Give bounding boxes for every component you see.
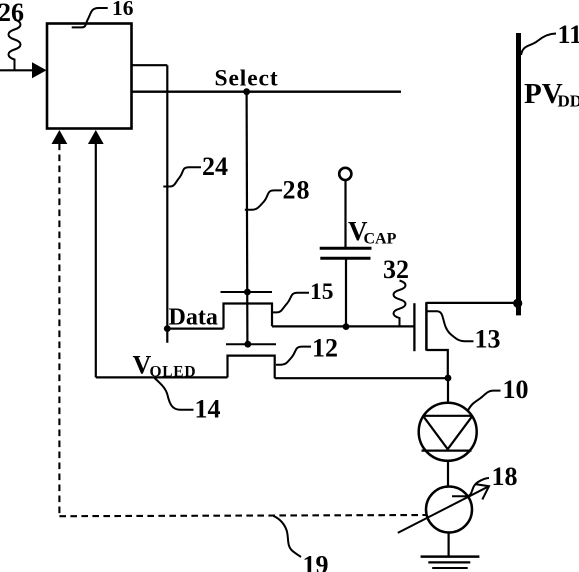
squiggle leader 32 xyxy=(394,281,406,327)
junction dot 28/gate12 xyxy=(244,341,251,348)
leader to 15 xyxy=(272,293,309,313)
dashed feedback wire vertical 19 xyxy=(58,144,60,517)
leader to 14 xyxy=(154,377,194,409)
leader to 24 xyxy=(163,167,201,186)
ground symbol xyxy=(421,557,480,568)
transistor Q13 gate bar xyxy=(413,303,415,351)
Data node dot xyxy=(164,325,171,332)
photosensor 18 circle xyxy=(426,487,472,533)
svg-text:11: 11 xyxy=(558,20,579,49)
open arrowhead of 18 xyxy=(476,484,489,499)
dashed feedback wire horizontal 19 xyxy=(59,515,425,516)
V_OLED wire left corner xyxy=(96,376,228,378)
input wire 26 xyxy=(0,69,33,71)
OLED D10 top lead xyxy=(447,378,449,403)
svg-text:19: 19 xyxy=(303,551,329,572)
leader to 13 xyxy=(426,311,473,341)
junction dot cap/gate wire xyxy=(343,323,350,330)
svg-text:14: 14 xyxy=(195,395,221,424)
capacitor top lead xyxy=(344,181,346,248)
transistor Q13 channel bar xyxy=(425,302,428,350)
transistor Q12 channel hump xyxy=(228,356,275,379)
transistor Q13 drain lead xyxy=(426,302,517,304)
arrowhead dashed into box xyxy=(52,130,68,144)
transistor Q15 channel hump xyxy=(224,304,273,329)
power bus PVDD 11 xyxy=(516,33,521,315)
gate wire 15 to 13 xyxy=(272,325,414,327)
transistor Q15 gate plate xyxy=(221,291,273,293)
svg-text:15: 15 xyxy=(310,279,334,305)
OLED D10 top chord xyxy=(423,415,473,417)
capacitor C 32 bottom plate xyxy=(320,257,370,260)
svg-text:OLED: OLED xyxy=(150,364,197,381)
junction dot source/OLED xyxy=(445,375,452,382)
V_OLED wire right to junction xyxy=(275,377,448,379)
svg-text:13: 13 xyxy=(475,325,501,354)
transistor Q13 source lead xyxy=(426,350,447,378)
leader to 11 xyxy=(521,34,556,56)
solid feedback wire to box xyxy=(95,144,97,378)
svg-text:24: 24 xyxy=(202,152,228,181)
svg-text:28: 28 xyxy=(283,176,311,205)
Data wire xyxy=(167,328,223,330)
OLED D10 bottom chord xyxy=(422,450,472,452)
Select wire xyxy=(132,90,402,92)
lead sensor to ground xyxy=(448,532,450,556)
transistor Q12 gate plate xyxy=(226,343,276,345)
variable arrow through 18 xyxy=(398,486,489,533)
capacitor C 32 top plate xyxy=(320,247,372,250)
svg-text:Data: Data xyxy=(169,305,218,331)
leader to 18 xyxy=(452,478,489,496)
OLED D10 circle xyxy=(419,403,477,461)
wire 24 vertical xyxy=(166,65,168,343)
svg-text:12: 12 xyxy=(312,333,338,362)
OLED D10 triangle xyxy=(423,416,473,449)
leader to 10 xyxy=(468,391,501,411)
capacitor top terminal circle xyxy=(339,168,351,180)
svg-text:32: 32 xyxy=(383,255,409,284)
stub wire from box to line 24 xyxy=(132,64,168,66)
leader to 16 xyxy=(72,8,108,27)
svg-text:CAP: CAP xyxy=(364,231,397,248)
leader to 28 xyxy=(245,190,282,209)
capacitor bottom lead xyxy=(345,258,347,327)
squiggle leader 26 xyxy=(9,20,21,71)
leader to 19 xyxy=(273,516,301,557)
svg-text:10: 10 xyxy=(503,375,529,404)
controller box 16 xyxy=(47,24,132,129)
arrowhead solid into box xyxy=(88,130,104,144)
svg-text:16: 16 xyxy=(112,0,134,20)
junction dot Select/28 xyxy=(243,88,250,95)
svg-text:DD: DD xyxy=(558,92,579,111)
leader to 12 xyxy=(276,347,311,365)
lead OLED to sensor 18 xyxy=(447,461,449,487)
svg-text:18: 18 xyxy=(492,462,518,491)
junction dot drain/PVDD xyxy=(513,299,522,308)
arrowhead into box 16 xyxy=(32,62,47,78)
junction dot 28/gate15 xyxy=(244,289,251,296)
svg-text:Select: Select xyxy=(215,66,279,92)
wire 28 vertical xyxy=(246,92,249,345)
